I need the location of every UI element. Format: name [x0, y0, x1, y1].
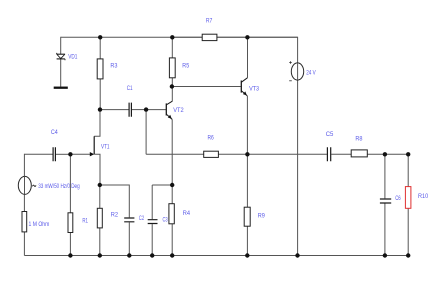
node VT1 source/R2/C2: [98, 183, 102, 187]
node output R10: [406, 152, 410, 156]
wire 24V top lead: [297, 37, 299, 63]
wire R9 top lead: [246, 154, 248, 207]
svg-text:VD1: VD1: [68, 54, 78, 61]
wire R6 left lead: [146, 153, 204, 155]
resistor R3: [97, 59, 103, 79]
svg-text:33 mW/50 Hz/0 Deg: 33 mW/50 Hz/0 Deg: [38, 183, 80, 190]
wire VT3 base row: [172, 86, 241, 88]
wire VD1 to ground: [60, 59, 62, 87]
transistor VT2: [166, 101, 172, 119]
wire R1 to rail: [69, 233, 71, 256]
ground: [54, 87, 68, 89]
svg-text:C1: C1: [127, 85, 133, 92]
wire bottom rail: [24, 255, 408, 257]
wire R4 to rail: [171, 224, 173, 256]
svg-text:R3: R3: [110, 63, 118, 70]
wire R2 node to C2: [100, 185, 130, 217]
wire 24V bottom to rail: [297, 80, 299, 256]
wire C1 right lead to node: [132, 109, 146, 111]
capacitor C5: [327, 147, 330, 161]
node VT3 emitter/R6/R9: [245, 152, 249, 156]
resistor R9: [244, 207, 250, 226]
wire output row to C5: [247, 153, 327, 155]
node rail R4: [170, 253, 174, 257]
wire source top lead: [23, 154, 25, 177]
wire 1M to rail: [23, 232, 25, 256]
node top R5: [170, 35, 174, 39]
wire R8 to output node: [367, 153, 408, 155]
wire C6 to rail: [384, 204, 386, 256]
svg-text:VT1: VT1: [101, 144, 110, 151]
VT1 gate arrow: [90, 152, 94, 156]
node VT2 emitter/R4/C3: [170, 183, 174, 187]
svg-text:VT3: VT3: [249, 85, 259, 92]
capacitor C3: [148, 220, 158, 224]
wire R2 to rail: [99, 228, 101, 256]
node output R8/C6: [383, 152, 387, 156]
wire VD1 riser: [60, 37, 62, 54]
wire R2 riser: [99, 185, 101, 208]
svg-text:C6: C6: [395, 195, 401, 202]
wire top rail: [61, 36, 298, 38]
wire VT2 collector vertical: [171, 87, 173, 102]
svg-text:R2: R2: [111, 212, 119, 219]
svg-text:R9: R9: [258, 213, 266, 220]
signal source (33 mW/50 Hz/0 Deg): [18, 176, 36, 194]
VT3 emitter arrow: [243, 91, 247, 95]
resistor R6: [204, 151, 219, 157]
DC source 24 V: [289, 61, 303, 81]
wire C1 left lead: [100, 109, 128, 111]
wire node to VT2 base: [146, 109, 166, 111]
VT2 emitter arrow: [168, 115, 172, 119]
svg-text:C4: C4: [51, 129, 58, 136]
wire VT1 source lead: [94, 154, 100, 185]
wire R3 top lead: [99, 37, 101, 59]
node rail R1: [68, 253, 72, 257]
node top VT3 collector: [245, 35, 249, 39]
node R5/VT3 base: [170, 84, 174, 88]
node rail C3: [150, 253, 154, 257]
wire VT3 collector vertical: [247, 37, 249, 78]
node C1/VT2 base: [144, 107, 148, 111]
node rail C6: [383, 253, 387, 257]
svg-text:24 V: 24 V: [306, 70, 316, 77]
svg-text:R1: R1: [82, 218, 88, 225]
wire R10 to rail: [407, 208, 409, 255]
wire C3 node to R4 node: [152, 184, 172, 186]
zener diode VD1: [57, 53, 66, 60]
node rail R2: [98, 253, 102, 257]
svg-text:C5: C5: [326, 131, 334, 138]
capacitor C4: [53, 147, 55, 161]
svg-text:R5: R5: [182, 63, 189, 70]
svg-text:VT2: VT2: [173, 107, 184, 114]
wire R9 to rail: [246, 226, 248, 255]
resistor R10 (red): [405, 187, 411, 209]
svg-text:1 M Ohm: 1 M Ohm: [29, 221, 50, 228]
svg-text:R10: R10: [418, 193, 429, 200]
capacitor C2: [124, 218, 134, 222]
node C4/R1/VT1 gate: [68, 152, 72, 156]
capacitor C1: [129, 103, 131, 117]
wire VT2 emitter vertical: [171, 119, 173, 185]
svg-text:R4: R4: [183, 210, 191, 217]
wire C5 to R8: [331, 153, 351, 155]
wire R6 right lead: [218, 153, 247, 155]
wire C3 to rail: [151, 224, 153, 255]
node top R3: [98, 35, 102, 39]
node rail R9: [245, 253, 249, 257]
wire R7 left lead: [172, 36, 202, 38]
wire C2 to rail: [128, 222, 130, 255]
wire R3 bottom to C1 node: [99, 79, 101, 110]
node rail R10: [406, 253, 410, 257]
wire input row left: [24, 153, 52, 155]
wire R6 riser from C1 node: [145, 110, 147, 155]
wire VT1 drain: [94, 110, 100, 137]
wire R7 right lead: [217, 36, 298, 38]
wire VT3 emitter vertical: [246, 96, 248, 154]
wire R5 bottom lead: [171, 78, 173, 87]
resistor R4: [169, 204, 174, 224]
wire C6 riser: [384, 154, 386, 198]
resistor R7: [202, 34, 217, 40]
wire R10 top lead: [407, 154, 409, 186]
wire C4 right lead: [56, 153, 71, 155]
svg-text:R8: R8: [355, 135, 363, 142]
resistor R5: [169, 58, 175, 78]
wire VT1 gate lead: [70, 153, 90, 155]
svg-text:C2: C2: [139, 215, 145, 222]
wire source to 1M resistor: [23, 194, 25, 211]
resistor 1 M Ohm: [22, 212, 27, 232]
resistor R1: [68, 213, 73, 233]
resistor R8: [351, 150, 367, 157]
wire R4 top lead: [171, 185, 173, 204]
wire R1 riser: [69, 154, 71, 213]
svg-text:R6: R6: [208, 134, 215, 141]
svg-text:C3: C3: [163, 217, 169, 224]
node R3/C1/VT1: [98, 107, 102, 111]
wire R5 top lead: [171, 37, 173, 58]
svg-text:R7: R7: [206, 18, 213, 25]
wire C3 riser: [151, 185, 153, 219]
transistor VT1 (JFET): [93, 136, 95, 154]
resistor R2: [97, 208, 102, 228]
capacitor C6: [380, 199, 391, 203]
node rail C2: [127, 253, 131, 257]
node rail 24V: [295, 253, 299, 257]
transistor VT3: [241, 78, 247, 96]
